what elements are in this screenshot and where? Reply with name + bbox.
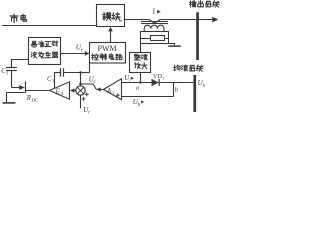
- wire Ui line: [122, 82, 194, 84]
- wire CT to rect-amp box: [140, 44, 142, 53]
- svg-text:r: r: [81, 48, 83, 53]
- CT secondary winding: [144, 25, 164, 28]
- op-amp A3: [104, 79, 122, 100]
- PWM control box PWM控制电路: [90, 43, 126, 64]
- burden resistor: [151, 36, 165, 41]
- wire Uc from A to summer: [96, 89, 103, 91]
- junction dot node a: [139, 81, 141, 83]
- reference sine generator box 基准正弦波发生器: [29, 38, 61, 65]
- wire rect-amp to node a: [140, 73, 142, 83]
- plus sign right: [85, 93, 89, 95]
- wire Ur to PWM: [61, 53, 86, 55]
- ground (left): [3, 102, 16, 104]
- share bus bar: [193, 75, 196, 112]
- plus at A lower input: [116, 94, 120, 96]
- current transformer primary notch: [149, 20, 161, 24]
- junction dot C3: [79, 71, 82, 74]
- svg-text:E: E: [55, 89, 61, 96]
- svg-text:c: c: [94, 80, 97, 85]
- svg-text:1: 1: [6, 70, 8, 75]
- wire mains input: [2, 25, 97, 27]
- svg-text:b: b: [138, 103, 141, 108]
- svg-text:n: n: [120, 18, 123, 23]
- label 均流母线 (share bus): [174, 65, 180, 70]
- wire C1 down: [11, 71, 13, 88]
- capacitor C3 feedback: [55, 72, 61, 74]
- rectifier-amplifier box 整流放大: [130, 53, 151, 73]
- arrow into EA input: [70, 88, 75, 92]
- svg-text:b: b: [203, 84, 206, 89]
- summing junction: [76, 86, 85, 95]
- svg-text:DC: DC: [31, 97, 38, 102]
- label 市电 (mains input): [10, 14, 18, 22]
- arrow PWM drive into module: [108, 27, 113, 32]
- svg-text:A: A: [60, 91, 64, 96]
- wire output to bus: [161, 19, 214, 21]
- arrow wiper into Rdc: [19, 85, 25, 90]
- svg-text:b: b: [175, 87, 178, 94]
- svg-text:a: a: [136, 85, 139, 92]
- wire Ub to A plus input: [122, 96, 174, 98]
- svg-text:VD: VD: [153, 73, 163, 80]
- wire box-left to C1: [12, 59, 29, 61]
- label 输出母线 (output bus): [190, 1, 197, 7]
- CT core bars: [141, 21, 168, 23]
- svg-text:r: r: [88, 111, 90, 114]
- svg-text:I: I: [153, 6, 156, 15]
- diode VD1: [152, 79, 159, 86]
- junction dot Uc: [79, 83, 82, 86]
- arrow output right: [212, 17, 218, 23]
- capacitor C1: [6, 67, 17, 69]
- wire PWM corner to summer: [89, 63, 91, 73]
- wire summer bottom Ur input: [80, 95, 82, 108]
- wire module output: [125, 19, 149, 21]
- wire Rdc to ground: [7, 92, 26, 94]
- arrow Uc leftward: [96, 87, 101, 91]
- output bus bar: [196, 12, 199, 60]
- op-amp EA: [50, 82, 70, 99]
- wire PWM to module: [110, 31, 112, 43]
- potentiometer Rdc bar: [25, 82, 27, 93]
- module block 模块: [97, 5, 125, 27]
- wire EA output: [26, 90, 50, 92]
- ground (CT): [169, 44, 175, 46]
- arrow into PWM box: [85, 51, 90, 56]
- CT burden loop: [141, 32, 169, 44]
- wire node b down: [173, 83, 175, 97]
- plus sign bottom: [82, 98, 86, 100]
- svg-text:PWM: PWM: [98, 44, 117, 53]
- svg-text:1: 1: [163, 76, 165, 81]
